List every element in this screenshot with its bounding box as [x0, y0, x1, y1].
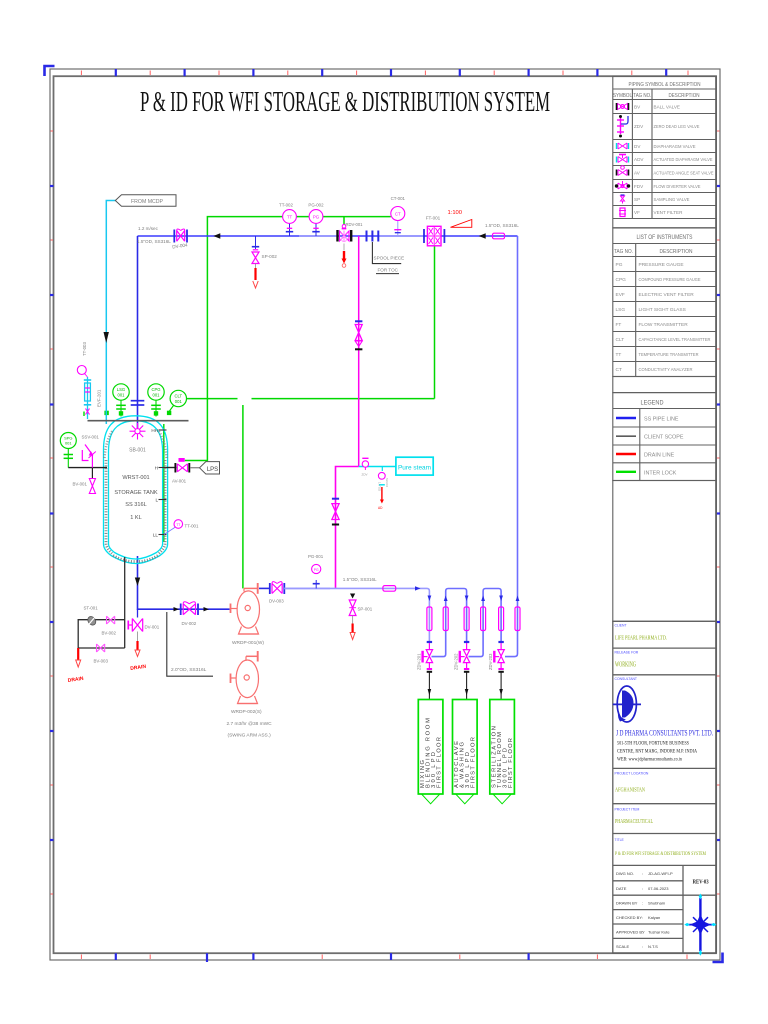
svg-text:RDV-001: RDV-001	[346, 222, 364, 227]
node green pad CPG	[154, 411, 158, 415]
svg-text:501-5TH FLOOR, FORTUNE BUSINES: 501-5TH FLOOR, FORTUNE BUSINESS	[617, 741, 689, 747]
valve DV-001	[128, 609, 159, 672]
svg-text:P & ID FOR WFI STORAGE & DISTR: P & ID FOR WFI STORAGE & DISTRIBUTION SY…	[615, 851, 706, 857]
svg-text:ZDV-201: ZDV-201	[417, 653, 422, 670]
svg-text:PIPING SYMBOL & DESCRIPTION: PIPING SYMBOL & DESCRIPTION	[629, 82, 701, 88]
tank jacket hatch right	[159, 460, 165, 554]
wire main supply top line	[138, 235, 518, 237]
svg-text:LSG: LSG	[117, 387, 125, 392]
svg-text:1.0"OD: 1.0"OD	[378, 482, 382, 491]
transmitter TT-001	[164, 527, 176, 535]
user point loop	[432, 589, 502, 657]
svg-text:BALL VALVE: BALL VALVE	[654, 105, 680, 110]
svg-text:JD-AG-WFI-P: JD-AG-WFI-P	[648, 871, 673, 876]
tank jacket hatch left	[106, 460, 112, 554]
svg-text:LPS: LPS	[207, 467, 218, 473]
svg-text:CT: CT	[395, 212, 401, 217]
valve SSV-001	[82, 445, 96, 468]
wire FT drop	[434, 246, 436, 399]
svg-text:EVF: EVF	[616, 292, 625, 298]
svg-text:DWG NO.: DWG NO.	[616, 871, 634, 876]
arrow suction right	[174, 607, 180, 611]
svg-text:CHECKED BY: CHECKED BY	[616, 915, 642, 920]
svg-text:PG: PG	[314, 568, 319, 572]
flag FROM MCDP	[115, 195, 176, 207]
legend: ss pipe line	[616, 417, 636, 419]
svg-text:FIRST FLOOR: FIRST FLOOR	[508, 738, 514, 788]
svg-text:DV-003: DV-003	[269, 599, 284, 604]
svg-text:CT: CT	[616, 367, 622, 373]
transmitter FT-001	[424, 216, 444, 246]
valve RDV-001 flow diverter	[338, 222, 364, 267]
svg-text:BV-001: BV-001	[73, 482, 88, 487]
junction white gap	[238, 392, 252, 406]
svg-text:ADV: ADV	[634, 157, 644, 162]
svg-text:CT-001: CT-001	[391, 196, 406, 201]
svg-text:TT-002: TT-002	[279, 203, 293, 208]
arrows on risers	[428, 596, 432, 602]
tank WRST-001	[104, 416, 168, 564]
svg-text:FROM MCDP: FROM MCDP	[131, 199, 164, 205]
corner bracket bottom-right	[713, 953, 723, 963]
svg-text:001: 001	[118, 393, 126, 398]
svg-text:BV-002: BV-002	[102, 631, 117, 636]
legend table	[613, 393, 717, 481]
flag pure steam	[396, 457, 433, 475]
legend: client scope	[616, 435, 636, 437]
wire drops to user points	[429, 673, 501, 700]
svg-text:CONDUCTIVITY ANALYZER: CONDUCTIVITY ANALYZER	[639, 367, 693, 373]
svg-text::: :	[642, 915, 643, 920]
vent filter EVF-201	[84, 377, 102, 419]
instrument PG-001	[308, 554, 324, 588]
svg-text:1.5"OD, SS316L: 1.5"OD, SS316L	[137, 239, 171, 244]
sight glass LSG-001	[113, 384, 129, 417]
tank shoulder hatch left	[105, 430, 114, 458]
svg-text:DESCRIPTION: DESCRIPTION	[669, 93, 700, 99]
svg-text:BV: BV	[634, 105, 641, 110]
spool piece clamps	[366, 231, 368, 242]
valve on steam drop	[355, 236, 362, 467]
svg-text:WORKING: WORKING	[615, 661, 636, 669]
svg-text:VF: VF	[634, 210, 640, 215]
arrow top line left near DV-004	[213, 233, 220, 239]
svg-text:PG-001: PG-001	[308, 554, 324, 559]
svg-text:DRAWN BY: DRAWN BY	[616, 901, 638, 906]
svg-text:CAPACITANCE LEVEL TRANSMITTER: CAPACITANCE LEVEL TRANSMITTER	[639, 337, 711, 343]
valve DV-002	[181, 602, 198, 626]
svg-text::: :	[642, 871, 643, 876]
pump WRDP-001(W)	[231, 583, 260, 634]
svg-text:1.5"OD, SS316L: 1.5"OD, SS316L	[343, 577, 377, 582]
list of instruments table	[613, 228, 717, 393]
svg-text:TAG NO.: TAG NO.	[633, 93, 651, 99]
instrument TT-002	[279, 203, 296, 237]
svg-text:H: H	[155, 466, 158, 471]
svg-text:SP-002: SP-002	[262, 254, 278, 259]
svg-text:AFGHANISTAN: AFGHANISTAN	[615, 787, 645, 794]
svg-text:1 KL: 1 KL	[130, 515, 142, 521]
dv glyph	[618, 143, 627, 149]
svg-text:AD: AD	[378, 506, 383, 510]
svg-text:PROJECT ITEM: PROJECT ITEM	[615, 808, 640, 812]
wire AV-001 interlock	[185, 399, 208, 461]
svg-text:SPOOL PIECE: SPOOL PIECE	[374, 256, 405, 261]
pure steam junction valve	[359, 458, 396, 476]
svg-text:J D PHARMA CONSULTANTS PVT. LT: J D PHARMA CONSULTANTS PVT. LTD.	[616, 728, 713, 738]
tank jacket hatch bottom	[113, 556, 158, 562]
valve SP-002	[252, 236, 277, 288]
svg-text:001: 001	[175, 399, 183, 404]
label 2.0"OD leader	[167, 612, 213, 676]
valve BV-003	[97, 644, 105, 652]
arrow suction right 2	[204, 607, 210, 611]
wire interlock top horizontal	[207, 217, 390, 399]
tank shoulder hatch right	[158, 430, 167, 458]
svg-text:ST-001: ST-001	[84, 606, 99, 611]
svg-text:DV: DV	[634, 144, 641, 149]
svg-text:Pure steam: Pure steam	[398, 465, 431, 472]
svg-text:L: L	[155, 498, 158, 503]
svg-text:SP-001: SP-001	[358, 607, 373, 612]
svg-text:VENT FILTER: VENT FILTER	[654, 210, 684, 215]
svg-text::: :	[642, 929, 643, 934]
drain arrow left	[77, 648, 79, 660]
svg-text:CLT: CLT	[174, 394, 182, 399]
pump WRDP-002(S)	[231, 651, 259, 704]
svg-text:LIGHT SIGHT GLASS: LIGHT SIGHT GLASS	[639, 307, 686, 313]
svg-text:TEMPERATURE TRANSMITTER: TEMPERATURE TRANSMITTER	[639, 352, 699, 358]
arrow discharge right	[415, 586, 421, 590]
svg-text:LIST OF INSTRUMENTS: LIST OF INSTRUMENTS	[637, 235, 693, 241]
svg-text:AV-001: AV-001	[172, 479, 187, 484]
wire tank left nozzle	[68, 467, 107, 469]
spray ball SB-001	[130, 423, 146, 440]
empty panel below legend	[613, 481, 717, 622]
gauge CPG-001	[148, 384, 164, 417]
steam trap ST-001	[86, 615, 97, 627]
svg-text:DESCRIPTION: DESCRIPTION	[660, 249, 693, 255]
valve DV-003	[269, 582, 284, 604]
svg-text:DRAIN LINE: DRAIN LINE	[644, 453, 675, 459]
svg-text:FIRST FLOOR: FIRST FLOOR	[437, 737, 443, 788]
svg-text:LIFE PEARL PHARMA LTD.: LIFE PEARL PHARMA LTD.	[615, 635, 667, 642]
svg-text:FLOW DIVERTER VALVE: FLOW DIVERTER VALVE	[654, 184, 701, 189]
svg-text:INTER LOCK: INTER LOCK	[644, 470, 677, 476]
svg-text:001: 001	[65, 441, 72, 446]
svg-text:HH: HH	[151, 428, 158, 433]
symbol glyphs	[615, 103, 630, 217]
svg-text:P & ID FOR WFI STORAGE & DISTR: P & ID FOR WFI STORAGE & DISTRIBUTION SY…	[140, 86, 550, 118]
wire tank feed drop to spray ball	[137, 236, 139, 428]
valve BV-002	[107, 616, 115, 624]
piping symbol table	[613, 76, 717, 228]
svg-text:ZDV-203: ZDV-203	[488, 653, 493, 670]
svg-text:DV-001: DV-001	[145, 625, 160, 630]
tank labels	[114, 475, 157, 521]
svg-text:FLOW TRANSMITTER: FLOW TRANSMITTER	[639, 322, 689, 328]
svg-text:SS 316L: SS 316L	[125, 502, 146, 508]
border ticks right	[717, 186, 721, 840]
svg-text:SAMPLING VALVE: SAMPLING VALVE	[654, 197, 690, 202]
svg-text:REV-03: REV-03	[693, 878, 709, 885]
level marks	[159, 430, 167, 535]
svg-text:LL: LL	[153, 533, 159, 538]
svg-text:WRST-001: WRST-001	[122, 475, 149, 481]
svg-text:WRDP-002(S): WRDP-002(S)	[231, 709, 262, 715]
signature rows	[616, 871, 673, 949]
svg-text:APPROVED BY: APPROVED BY	[616, 929, 645, 934]
sp glyph	[621, 196, 625, 201]
svg-text:CLIENT SCOPE: CLIENT SCOPE	[644, 435, 684, 441]
wire loop supply	[284, 588, 429, 641]
svg-text:07-06-2023: 07-06-2023	[648, 886, 669, 891]
svg-text:PRESSURE GAUGE: PRESSURE GAUGE	[639, 262, 684, 268]
border ticks left	[50, 186, 54, 840]
svg-text:Tushar Kute: Tushar Kute	[648, 929, 670, 934]
svg-text:ZDV: ZDV	[362, 473, 368, 477]
legend: inter lock	[616, 471, 636, 473]
svg-text:SP: SP	[634, 197, 640, 202]
svg-text:ACTUATED ANGLE SEAT VALVE: ACTUATED ANGLE SEAT VALVE	[654, 171, 714, 176]
svg-text:CLT: CLT	[616, 337, 625, 343]
svg-text:N.T.S: N.T.S	[648, 944, 658, 949]
wire pump interlock	[242, 399, 244, 589]
svg-text:LEGEND: LEGEND	[641, 401, 665, 407]
valve AV-001 with LPS	[167, 458, 220, 484]
svg-text:SYMBOL: SYMBOL	[613, 93, 632, 99]
border frame	[50, 69, 720, 960]
svg-text:SV-002: SV-002	[385, 478, 389, 488]
svg-text:PG: PG	[313, 215, 320, 220]
green interlock net	[164, 217, 435, 589]
capsules on risers	[427, 607, 520, 631]
valve SP-001	[349, 594, 373, 640]
svg-text:(SWING ARM ASS.): (SWING ARM ASS.)	[228, 733, 272, 739]
svg-text:TT-003: TT-003	[82, 342, 87, 356]
svg-text:2.0"OD, SS316L: 2.0"OD, SS316L	[171, 667, 207, 673]
svg-text:TT: TT	[616, 352, 622, 358]
svg-text:EVF-201: EVF-201	[97, 389, 102, 407]
user point box 3	[490, 700, 515, 804]
arrow top line left near SS316L label	[479, 233, 486, 239]
svg-text:FDV: FDV	[634, 184, 644, 189]
svg-text:ZDV-202: ZDV-202	[454, 653, 459, 670]
spool piece leader + label	[372, 242, 401, 264]
svg-text:CPG: CPG	[151, 387, 160, 392]
compass rose	[688, 898, 714, 951]
border ticks top	[116, 69, 666, 76]
adv glyph	[618, 155, 627, 163]
corner bracket top-left	[45, 66, 55, 76]
valve ZDV-201	[417, 642, 433, 672]
svg-text:TT: TT	[287, 215, 293, 220]
zdv glyph	[617, 118, 624, 134]
svg-text:TITLE: TITLE	[615, 838, 625, 842]
valve ZDV-203	[488, 642, 504, 672]
clamp on feed drop	[131, 400, 145, 402]
inline capsule top line	[493, 233, 505, 239]
svg-text:TAG NO.: TAG NO.	[614, 249, 633, 255]
svg-text:PHARMACEUTICAL: PHARMACEUTICAL	[615, 818, 653, 825]
node green junction	[104, 411, 108, 415]
svg-text:001: 001	[153, 393, 161, 398]
svg-text:Kalyan: Kalyan	[648, 915, 660, 920]
wire suction from tank bottom	[138, 556, 230, 609]
valve BV-001	[73, 468, 96, 494]
node green pad LSG	[119, 411, 123, 415]
pure steam sample branch	[378, 467, 390, 511]
svg-text:ACTUATED DIAPHRAGM VALVE: ACTUATED DIAPHRAGM VALVE	[654, 157, 713, 162]
wire CLT horizontal	[186, 398, 435, 400]
ball valve glyph	[618, 104, 628, 110]
client scope line tank top	[88, 420, 189, 422]
legend: drain line	[616, 453, 636, 455]
svg-text:FT-001: FT-001	[426, 216, 441, 221]
svg-text:ZDV: ZDV	[634, 124, 644, 129]
border ticks bottom	[116, 953, 529, 962]
valve ZDV-202	[454, 642, 470, 672]
svg-text:TT: TT	[176, 523, 180, 527]
wire zdv202 to riser 3	[469, 589, 502, 657]
wire cyan from MCDP	[106, 201, 115, 425]
svg-text:CENTRE, RNT MARG, INDORE M.P.: CENTRE, RNT MARG, INDORE M.P. INDIA	[617, 749, 697, 755]
svg-text:DIAPHARAGM VALVE: DIAPHARAGM VALVE	[654, 144, 696, 149]
svg-text:1.5"OD, SS316L: 1.5"OD, SS316L	[485, 223, 519, 228]
svg-text:1.2 m/sec: 1.2 m/sec	[138, 226, 159, 231]
svg-text:COMPOUND PRESSURE GAUGE: COMPOUND PRESSURE GAUGE	[639, 277, 701, 283]
svg-text:RELEASE FOR: RELEASE FOR	[615, 651, 639, 655]
svg-text:FOR TOC: FOR TOC	[378, 268, 399, 273]
svg-text:STORAGE TANK: STORAGE TANK	[114, 490, 157, 496]
wire RDV riser	[343, 217, 345, 225]
arrow on cyan line	[104, 332, 109, 343]
flag LPS	[200, 462, 220, 474]
svg-text:Shubham: Shubham	[648, 901, 666, 906]
svg-text:TT-001: TT-001	[185, 524, 199, 529]
transmitter CLT-001	[169, 390, 186, 411]
wire jacket drain	[78, 557, 125, 648]
svg-text::: :	[642, 944, 643, 949]
steam tie-in to loop	[332, 467, 359, 589]
fdv glyph	[618, 181, 627, 189]
instrument PG-002	[308, 203, 324, 237]
gauge SPG-001	[60, 433, 76, 468]
svg-text:ZERO DEAD LEG VALVE: ZERO DEAD LEG VALVE	[654, 124, 700, 129]
vf glyph	[620, 208, 625, 217]
svg-text:PG-002: PG-002	[308, 203, 324, 208]
node green junction CLT	[167, 411, 171, 415]
wire pump discharge	[259, 587, 270, 589]
svg-text:CONSULTANT: CONSULTANT	[615, 677, 637, 681]
svg-text:2.7 m3/hr @38 mWC: 2.7 m3/hr @38 mWC	[227, 721, 273, 727]
inline capsule discharge	[383, 586, 396, 592]
user point box 2	[453, 700, 478, 804]
svg-text:AV: AV	[634, 171, 641, 176]
svg-text:DV-002: DV-002	[182, 621, 197, 626]
svg-text:WEB: www.jdpharmaconsultants.c: WEB: www.jdpharmaconsultants.co.in	[617, 757, 682, 763]
CLT probe in tank	[163, 424, 165, 542]
wire return riser right	[505, 236, 518, 657]
svg-text:DATE: DATE	[616, 886, 627, 891]
arrow suction down	[135, 578, 140, 587]
svg-text:BV-003: BV-003	[94, 659, 109, 664]
av glyph	[618, 166, 627, 176]
svg-text:ELECTRIC VENT FILTER: ELECTRIC VENT FILTER	[639, 292, 695, 298]
svg-text:CLIENT: CLIENT	[615, 624, 627, 628]
svg-text:SB-001: SB-001	[129, 448, 146, 454]
svg-text:SCALE: SCALE	[616, 944, 629, 949]
svg-text::: :	[642, 901, 643, 906]
wire zdv201 to riser 2	[432, 589, 467, 657]
svg-text:1:100: 1:100	[448, 210, 463, 216]
svg-text:SS PIPE LINE: SS PIPE LINE	[644, 417, 679, 423]
svg-text:LSG: LSG	[616, 307, 626, 313]
svg-text:CPG: CPG	[616, 277, 627, 283]
svg-text::: :	[642, 886, 643, 891]
user point box 1	[418, 700, 443, 804]
svg-text:FIRST FLOOR: FIRST FLOOR	[471, 737, 477, 788]
svg-text:PROJECT LOCATION: PROJECT LOCATION	[615, 772, 649, 776]
svg-text:SSV-001: SSV-001	[82, 435, 100, 440]
instrument CT-001	[391, 196, 406, 236]
valve DV-004	[172, 229, 188, 249]
svg-text:WRDP-001(W): WRDP-001(W)	[232, 640, 264, 646]
svg-text:FT: FT	[616, 322, 622, 328]
svg-text:PG: PG	[616, 262, 623, 268]
